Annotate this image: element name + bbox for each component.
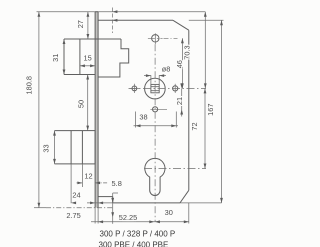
svg-text:31: 31 [51, 54, 60, 62]
svg-text:24: 24 [72, 190, 80, 199]
svg-text:12: 12 [84, 171, 92, 180]
svg-text:46: 46 [175, 60, 184, 68]
svg-text:70.3: 70.3 [183, 45, 192, 59]
svg-text:33: 33 [42, 144, 51, 152]
svg-text:300 P / 328 P / 400 P: 300 P / 328 P / 400 P [100, 230, 176, 239]
svg-text:ø8: ø8 [162, 64, 171, 73]
svg-text:21: 21 [175, 97, 184, 105]
svg-text:180.8: 180.8 [24, 76, 33, 95]
svg-text:167: 167 [206, 104, 215, 116]
svg-text:30: 30 [165, 208, 173, 217]
svg-text:2.75: 2.75 [66, 211, 80, 220]
svg-text:5.8: 5.8 [112, 179, 122, 188]
svg-text:52.25: 52.25 [119, 213, 138, 222]
svg-text:50: 50 [77, 100, 86, 108]
svg-text:27: 27 [76, 20, 85, 28]
svg-text:15: 15 [83, 53, 91, 62]
svg-text:72: 72 [190, 122, 199, 130]
svg-text:300 PBE / 400 PBE: 300 PBE / 400 PBE [99, 240, 169, 247]
svg-text:38: 38 [139, 113, 147, 122]
